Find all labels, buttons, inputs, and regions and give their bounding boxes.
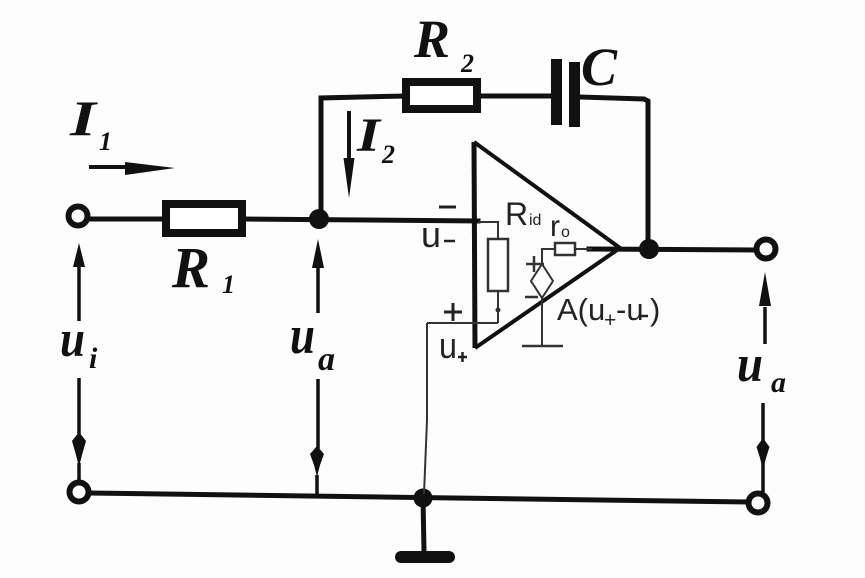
svg-text:1: 1 <box>222 270 235 299</box>
svg-text:r: r <box>550 210 560 243</box>
svg-text:I: I <box>356 109 383 162</box>
svg-text:A(u: A(u <box>557 292 605 327</box>
svg-text:o: o <box>561 224 570 241</box>
svg-text:i: i <box>89 342 98 375</box>
svg-text:R: R <box>171 235 210 300</box>
svg-text:id: id <box>529 212 541 229</box>
svg-text:u: u <box>737 336 763 393</box>
svg-text:u: u <box>290 305 315 365</box>
svg-text:): ) <box>650 292 660 327</box>
svg-text:2: 2 <box>460 49 474 78</box>
svg-text:1: 1 <box>99 127 112 156</box>
svg-text:u: u <box>60 311 85 368</box>
svg-text:I: I <box>69 90 98 146</box>
svg-text:-u: -u <box>616 292 644 327</box>
svg-text:a: a <box>318 341 335 378</box>
svg-text:2: 2 <box>381 140 395 169</box>
svg-text:u: u <box>439 325 457 366</box>
svg-text:R: R <box>413 9 450 69</box>
svg-text:u: u <box>421 214 441 255</box>
svg-text:R: R <box>505 196 528 232</box>
svg-text:+: + <box>604 309 616 332</box>
svg-text:a: a <box>771 366 786 399</box>
svg-text:C: C <box>581 37 618 97</box>
